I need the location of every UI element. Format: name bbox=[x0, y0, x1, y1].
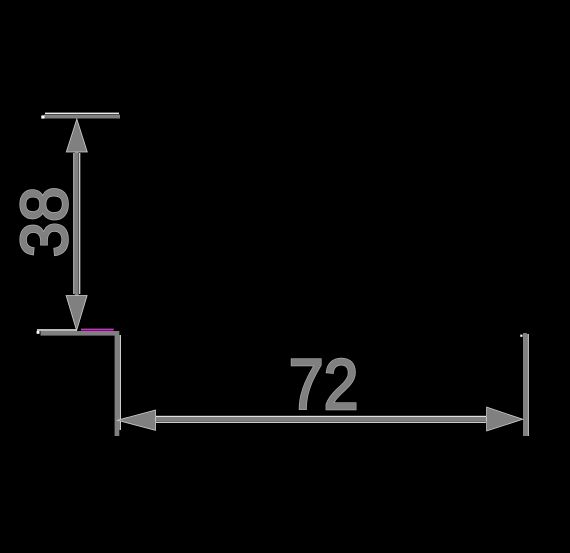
svg-text:72: 72 bbox=[289, 345, 359, 425]
svg-text:38: 38 bbox=[7, 187, 82, 257]
